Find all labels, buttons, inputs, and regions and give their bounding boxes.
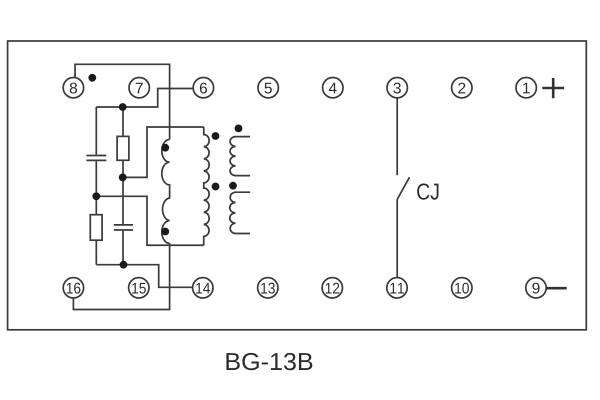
junction dot bottom rail — [120, 261, 128, 269]
winding W2 (middle) — [204, 127, 209, 245]
polarity dot winding W2 middle — [212, 183, 220, 191]
terminal 7 — [129, 78, 149, 98]
terminal 9 — [526, 278, 546, 298]
junction dot at R1 top — [119, 103, 127, 111]
polarity dot winding W3 top — [235, 124, 243, 132]
terminal 10 — [452, 278, 472, 298]
terminal 6 — [193, 78, 213, 98]
polarity minus sign — [546, 287, 566, 290]
wire: lower junction to winding W2 bottom — [96, 196, 203, 245]
terminal 8 — [63, 78, 83, 98]
terminal 5 — [258, 78, 278, 98]
terminal 4 — [323, 78, 343, 98]
terminal 14 — [193, 278, 213, 298]
winding W3 upper (right secondary) — [230, 137, 250, 176]
winding W1 (left primary) — [162, 140, 170, 244]
capacitor C2 — [114, 225, 133, 230]
wire: R1 junction to winding W2 top — [123, 127, 204, 177]
terminal 13 — [258, 278, 278, 298]
winding W3 lower (right secondary) — [230, 192, 250, 233]
terminal 11 — [387, 278, 407, 298]
title BG-13B — [226, 353, 312, 370]
wire: C1 to resistor R2 — [95, 161, 97, 214]
polarity dot winding W1 top — [161, 144, 169, 152]
terminal 1 — [516, 78, 536, 98]
wire: junction to capacitor C2 — [122, 177, 124, 224]
wire: R1 bottom lead — [122, 160, 124, 177]
wire: R2 bottom lead — [95, 240, 97, 265]
terminal 2 — [452, 78, 472, 98]
wire: terminal 8 up and over to winding W1 — [75, 64, 170, 139]
resistor R1 top lead — [122, 107, 124, 136]
switch CJ blade — [397, 177, 409, 199]
wire: terminal 3 to switch — [396, 98, 398, 175]
polarity dot winding W1 bottom — [161, 228, 169, 236]
wire: C2 bottom lead — [122, 231, 124, 265]
label CJ — [417, 183, 438, 199]
capacitor C1 top lead — [95, 107, 97, 155]
resistor R2 — [90, 215, 102, 241]
polarity dot winding W3 middle — [229, 182, 237, 190]
terminal 3 — [387, 78, 407, 98]
wire: winding W1 bottom to terminal 16 — [73, 243, 169, 309]
polarity dot winding W2 top — [212, 132, 220, 140]
wire: bottom rail to terminal 14 — [96, 265, 192, 288]
polarity dot near terminal 8 — [88, 74, 96, 82]
wire: terminal 6 left and down to RC network — [96, 89, 193, 108]
resistor R1 — [117, 136, 129, 160]
junction dot at R1 bottom — [119, 174, 127, 182]
polarity plus sign — [542, 78, 564, 98]
terminal 15 — [129, 278, 149, 298]
capacitor C1 — [86, 156, 106, 161]
terminal 12 — [322, 278, 342, 298]
junction dot C1-R2 node — [92, 192, 100, 200]
wire: switch to terminal 11 — [396, 199, 398, 278]
terminal 16 — [63, 278, 83, 298]
